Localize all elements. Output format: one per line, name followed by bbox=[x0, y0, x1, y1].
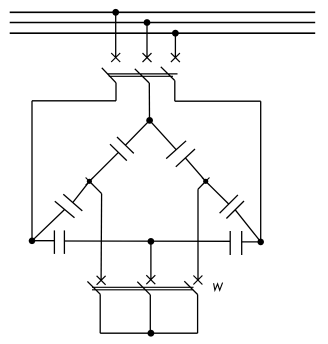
capacitor C5 bbox=[54, 230, 64, 254]
wire branch center vertical bbox=[150, 241, 152, 279]
node on bus L3 bbox=[172, 30, 179, 37]
capacitor C4 bbox=[220, 195, 244, 219]
wire pole3 down bbox=[174, 80, 176, 101]
node on bus L2 bbox=[144, 19, 151, 26]
wire branch right vertical bbox=[197, 189, 199, 280]
wire delta left lower a bbox=[73, 181, 90, 202]
contact cross phase B bbox=[143, 53, 152, 62]
switch QS2 blade pole 1 bbox=[87, 281, 100, 294]
wire right horizontal bbox=[175, 100, 261, 102]
contact cross phase C bbox=[171, 53, 180, 62]
wire delta right lower a bbox=[206, 181, 229, 204]
wire pole1 down bbox=[115, 83, 117, 101]
label W bbox=[214, 283, 223, 291]
bus L2 bbox=[10, 22, 316, 24]
node tap right bbox=[202, 178, 210, 186]
wire delta right upper bbox=[150, 120, 177, 149]
bus L1 bbox=[10, 11, 316, 13]
wire delta left upper bbox=[125, 120, 149, 145]
wire right feeder vertical bbox=[260, 101, 262, 242]
capacitor C2 bbox=[55, 194, 83, 218]
capacitor C3 bbox=[166, 141, 195, 167]
switch QS2 blade pole 3 bbox=[184, 281, 197, 294]
wire branch left vertical bbox=[100, 194, 103, 281]
node delta top vertex bbox=[146, 117, 153, 124]
wire bottom left a bbox=[32, 240, 54, 242]
wire tap phase C bbox=[174, 33, 176, 57]
wire pole2 down bbox=[148, 83, 150, 120]
switch QS1 gang bar bbox=[107, 74, 177, 76]
wire tap phase B bbox=[146, 23, 148, 58]
node delta bottom center bbox=[148, 238, 155, 245]
wire tap phase A bbox=[115, 12, 117, 57]
contact cross bottom center bbox=[146, 275, 155, 284]
wire shorting bar bbox=[100, 332, 197, 334]
node on bus L1 bbox=[112, 9, 119, 16]
wire delta left mid bbox=[89, 152, 118, 181]
wire branch left diagonal bbox=[89, 181, 101, 193]
node delta right vertex bbox=[257, 239, 264, 246]
contact cross bottom right bbox=[193, 276, 202, 285]
wire QS2 pole3 down bbox=[197, 295, 199, 334]
node shorting bar center bbox=[148, 330, 155, 337]
node tap left bbox=[86, 178, 94, 186]
wire QS2 pole1 down bbox=[99, 294, 101, 333]
bus L3 bbox=[10, 32, 316, 34]
node delta left vertex bbox=[29, 238, 36, 245]
switch QS2 gang bar bbox=[92, 287, 194, 290]
switch QS1 blade pole 3 bbox=[161, 67, 175, 81]
wire QS2 pole2 down bbox=[149, 295, 151, 334]
wire bottom middle bbox=[64, 240, 230, 242]
capacitor C1 bbox=[110, 137, 134, 161]
wire delta right mid bbox=[185, 158, 205, 181]
wire bottom right a bbox=[242, 241, 261, 243]
switch QS1 blade pole 1 bbox=[102, 68, 116, 83]
wire delta right lower b bbox=[235, 210, 261, 242]
contact cross bottom left bbox=[97, 276, 106, 285]
wire left feeder vertical bbox=[31, 101, 33, 241]
capacitor C6 bbox=[230, 231, 242, 255]
wire left horizontal bbox=[32, 100, 116, 102]
wire delta left lower b bbox=[32, 210, 65, 241]
switch QS1 blade pole 2 bbox=[135, 69, 149, 83]
contact cross phase A bbox=[111, 53, 120, 62]
wire branch right diagonal bbox=[198, 181, 206, 189]
switch QS2 blade pole 2 bbox=[137, 282, 150, 295]
